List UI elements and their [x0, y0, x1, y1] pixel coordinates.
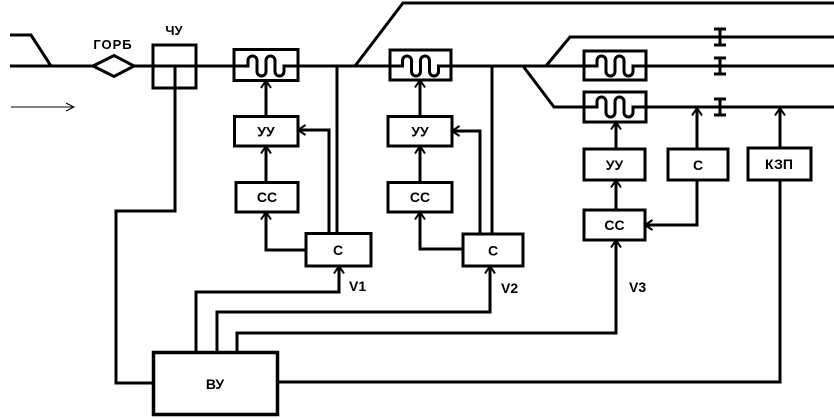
block UU3 [584, 149, 645, 180]
block ChU [153, 45, 196, 88]
block C3 [668, 149, 728, 180]
arrowhead into G4 [611, 122, 621, 130]
wire UU3 to generator G4 [615, 122, 618, 149]
svg-text:С: С [693, 157, 703, 173]
wire C3 to SS3 [645, 180, 697, 225]
wire V2 from VU to C2 [217, 266, 490, 353]
wire C3 to track 3 [696, 107, 699, 149]
svg-text:УУ: УУ [257, 124, 275, 140]
arrowhead into G1 [261, 81, 271, 89]
wire top-left spur [10, 35, 51, 66]
wire A2 feed to UU2, C2 top to UU2 right [452, 131, 480, 234]
svg-text:СС: СС [410, 189, 430, 205]
wire UU2 to generator G2 [419, 80, 422, 117]
svg-text:СС: СС [257, 189, 277, 205]
arrowhead C3 into track 3 [692, 108, 702, 116]
block SS3 [584, 210, 645, 240]
svg-text:V3: V3 [629, 279, 646, 295]
arrowhead into UU1 bottom [261, 146, 271, 154]
svg-text:ЧУ: ЧУ [165, 23, 183, 38]
generator G1 [234, 50, 298, 81]
wire V1 from VU to C1 [196, 266, 339, 353]
wire main track line [10, 65, 834, 68]
svg-text:С: С [488, 243, 498, 259]
arrowhead into UU2 right [452, 126, 460, 136]
block UU2 [388, 117, 452, 147]
thin direction arrow (left) [11, 103, 74, 111]
arrowhead into SS3 right [645, 220, 653, 230]
wire V3 from VU to SS3 [237, 240, 616, 353]
block KZP [748, 148, 811, 180]
wire top track 1 (diagonal + horizontal) [355, 3, 834, 66]
svg-text:ГОРБ: ГОРБ [93, 37, 132, 52]
wire C1 to SS1 [266, 212, 306, 250]
wire SS3 to UU3 [615, 180, 618, 210]
wire B2 main line to C2 top [491, 66, 494, 234]
svg-text:КЗП: КЗП [765, 156, 793, 172]
generator G3 [584, 51, 646, 80]
hump diamond GORB [93, 56, 134, 77]
arrowhead into G2 [415, 80, 425, 88]
wire KZP to track 3 [779, 107, 782, 148]
block C1 [306, 234, 371, 267]
generator G4 [584, 92, 646, 122]
svg-text:V2: V2 [501, 280, 518, 296]
insulated joint on track 3 [714, 99, 726, 115]
insulated joint on track 2 [714, 29, 726, 45]
wire SS1 to UU1 [265, 146, 268, 182]
block SS2 [388, 183, 452, 213]
wire main line through ChU [153, 65, 196, 68]
insulated joint on main track [714, 58, 726, 74]
svg-text:СС: СС [604, 217, 624, 233]
arrowhead into SS2 bottom [415, 212, 425, 220]
svg-text:ВУ: ВУ [206, 376, 225, 392]
arrowhead into SS1 bottom [261, 212, 271, 220]
arrowhead into UU2 bottom [415, 146, 425, 154]
arrowhead into UU1 right [298, 125, 306, 135]
block SS1 [236, 183, 298, 213]
wire track 3 lower (diagonal + horizontal) [523, 66, 834, 107]
arrowhead KZP into track 3 [775, 108, 785, 116]
wire C2 to SS2 [420, 212, 463, 249]
block C2 [463, 234, 523, 266]
wire track 2 (diagonal + horizontal) [546, 37, 834, 66]
wire SS2 to UU2 [419, 146, 422, 182]
svg-text:V1: V1 [349, 278, 366, 294]
block UU1 [235, 117, 299, 147]
svg-text:С: С [333, 242, 343, 258]
wire ChU down to VU (left column) [116, 66, 175, 383]
arrowhead into UU3 bottom [611, 180, 621, 188]
svg-text:УУ: УУ [411, 124, 429, 140]
generator G2 [390, 50, 451, 80]
block VU [154, 353, 278, 415]
arrowhead into SS3 bottom [611, 240, 621, 248]
arrowhead into C2 bottom [485, 266, 495, 274]
wire B1 main line to C1 top [336, 66, 339, 234]
arrowhead into C1 bottom [334, 266, 344, 274]
wire KZP to VU (bottom right) [277, 180, 780, 382]
wire A1 feed to UU1, C1 top to UU1 right [298, 130, 329, 234]
wire ChU internal drop [174, 66, 177, 88]
wire UU1 to generator G1 [265, 80, 268, 117]
svg-text:УУ: УУ [606, 157, 624, 173]
